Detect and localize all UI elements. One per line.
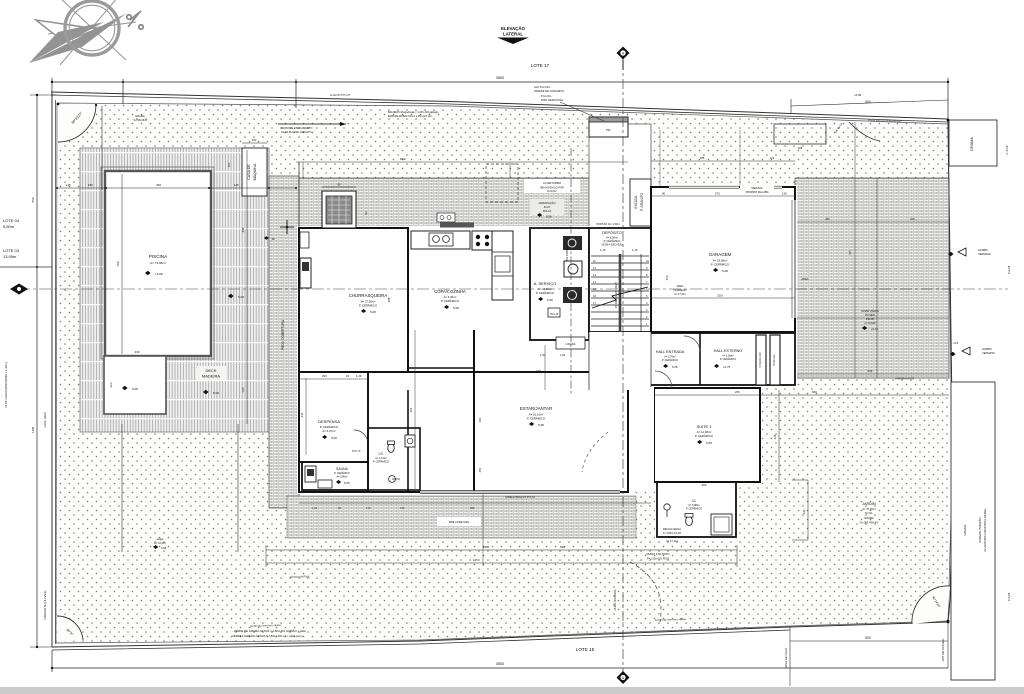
svg-text:5,08: 5,08 xyxy=(331,436,337,440)
svg-text:MUT DIR PASSEIO: MUT DIR PASSEIO xyxy=(941,639,945,662)
svg-text:P. CERÂMICO: P. CERÂMICO xyxy=(527,416,546,421)
washbasin xyxy=(405,435,415,447)
svg-text:400: 400 xyxy=(701,483,706,487)
drain box in band xyxy=(437,213,455,222)
room SAUNA xyxy=(302,462,368,490)
svg-text:AREA: AREA xyxy=(801,277,808,281)
svg-text:40 AT: 40 AT xyxy=(544,205,551,209)
svg-text:P. CERÂMICO: P. CERÂMICO xyxy=(536,290,555,295)
svg-text:GARAGEM: GARAGEM xyxy=(709,252,732,257)
corner white wedge bottom-right xyxy=(912,586,950,624)
svg-text:GLP P=2,20m: GLP P=2,20m xyxy=(534,85,550,89)
svg-text:LATERAL: LATERAL xyxy=(503,32,523,37)
svg-text:PERMEAB.: PERMEAB. xyxy=(674,289,687,292)
svg-text:5,08: 5,08 xyxy=(161,546,167,550)
gate on top boundary xyxy=(589,117,628,137)
svg-text:750: 750 xyxy=(606,128,611,132)
escoamento arrow note xyxy=(278,123,346,125)
svg-text:P. CERÂMICO: P. CERÂMICO xyxy=(359,303,378,308)
svg-text:LOTE 17: LOTE 17 xyxy=(531,63,550,68)
svg-text:5,08: 5,08 xyxy=(238,295,244,299)
svg-text:1,00: 1,00 xyxy=(560,353,566,357)
svg-text:A= 6,37m²: A= 6,37m² xyxy=(323,429,336,433)
svg-text:3500: 3500 xyxy=(496,76,504,80)
svg-text:P=0,70: P=0,70 xyxy=(352,449,361,453)
svg-text:GRAMA: GRAMA xyxy=(135,114,145,118)
garage forecourt dims xyxy=(651,160,795,162)
svg-text:100: 100 xyxy=(252,138,257,142)
right brick dims xyxy=(854,122,856,378)
suite shower xyxy=(711,514,732,535)
dimension: bottom 3500 xyxy=(52,667,948,669)
svg-text:A= 75,26m²: A= 75,26m² xyxy=(862,507,876,511)
room HALL ENTRADA / HALL EXTERNO xyxy=(642,333,795,385)
svg-text:415: 415 xyxy=(848,250,852,255)
stairs center rail xyxy=(619,254,622,332)
svg-text:288: 288 xyxy=(241,227,245,232)
dimension: casa maquina 100 xyxy=(242,142,267,144)
lot boundary top double line xyxy=(51,92,948,119)
svg-text:JARDIM: JARDIM xyxy=(862,502,875,506)
svg-text:DECK: DECK xyxy=(205,368,216,373)
svg-text:5,08: 5,08 xyxy=(370,310,376,314)
svg-text:5,60m: 5,60m xyxy=(3,224,15,229)
svg-text:MADEIRA: MADEIRA xyxy=(202,374,221,379)
svg-text:252: 252 xyxy=(409,407,413,412)
svg-text:+0,75: +0,75 xyxy=(723,365,731,369)
svg-text:203 COBERTURA: 203 COBERTURA xyxy=(565,238,569,261)
service yard brick band xyxy=(299,178,593,228)
garage inner dims xyxy=(651,195,795,197)
svg-text:415: 415 xyxy=(665,275,669,280)
casa de maquina box xyxy=(242,148,267,196)
svg-text:JARDIM ALA KTE: JARDIM ALA KTE xyxy=(895,378,915,381)
svg-text:A= 73,08m²: A= 73,08m² xyxy=(150,261,166,265)
svg-text:90: 90 xyxy=(337,183,341,187)
svg-text:400: 400 xyxy=(156,183,161,187)
svg-text:P. CERÂMICO: P. CERÂMICO xyxy=(720,358,736,361)
svg-text:MRE CORETURA: MRE CORETURA xyxy=(449,521,470,524)
svg-text:GRAMA: GRAMA xyxy=(864,516,874,520)
svg-text:P.CIM GRL: P.CIM GRL xyxy=(773,353,776,366)
stairs treads xyxy=(591,256,649,326)
svg-text:A= 34,4m²: A= 34,4m² xyxy=(154,542,166,545)
svg-text:A. SERVIÇO: A. SERVIÇO xyxy=(534,281,557,286)
svg-text:ELEVAÇÃO: ELEVAÇÃO xyxy=(501,26,526,31)
svg-text:POLLA: POLLA xyxy=(543,209,552,213)
room COPA/COZINHA xyxy=(407,228,409,368)
garage white xyxy=(651,185,797,334)
svg-text:4,50: 4,50 xyxy=(536,369,542,373)
paved terrace band below house xyxy=(287,496,636,538)
hall door arc xyxy=(684,336,700,352)
svg-text:BARKDE MVBA2 Kmc/v 1,05m DO wG: BARKDE MVBA2 Kmc/v 1,05m DO wG xyxy=(388,115,432,118)
svg-text:AUAD EVNTKu M: AUAD EVNTKu M xyxy=(330,94,350,97)
suite bath white xyxy=(655,480,738,539)
north compass rose xyxy=(48,0,136,65)
stove xyxy=(472,231,494,250)
tanque xyxy=(548,308,560,317)
planters between halls xyxy=(756,335,766,385)
interior dim marks left block xyxy=(305,378,307,455)
entry path white xyxy=(589,124,651,228)
svg-text:Fm3,8m²: Fm3,8m² xyxy=(547,190,557,193)
svg-text:P. CERÂMICO: P. CERÂMICO xyxy=(686,508,702,511)
svg-text:P+5,08: P+5,08 xyxy=(1007,265,1011,274)
terrain stipple fill xyxy=(56,103,952,643)
svg-text:PISCINA: PISCINA xyxy=(149,254,168,259)
svg-text:15: 15 xyxy=(346,374,350,378)
shower circle xyxy=(389,476,396,483)
svg-text:690: 690 xyxy=(560,545,565,549)
svg-text:C3 RETURBO: C3 RETURBO xyxy=(543,181,562,185)
svg-text:1,20: 1,20 xyxy=(312,506,318,510)
dimension: 600 wall top right xyxy=(791,100,948,106)
section line A-A vertical xyxy=(622,60,624,672)
svg-text:223: 223 xyxy=(109,382,113,387)
svg-text:PROPRIO Rw1,45M: PROPRIO Rw1,45M xyxy=(746,191,769,194)
svg-text:76x1,10: 76x1,10 xyxy=(550,313,559,316)
corridor wall xyxy=(367,372,369,462)
svg-text:ESTAR/JANTAR: ESTAR/JANTAR xyxy=(520,406,552,411)
svg-text:600: 600 xyxy=(478,417,482,422)
svg-text:1,68m HtGP: 1,68m HtGP xyxy=(43,412,47,428)
sauna/is annex white xyxy=(297,455,422,492)
serviço/deposito block white xyxy=(530,226,655,342)
svg-text:A= 6,56m²: A= 6,56m² xyxy=(606,236,618,240)
svg-text:MUIRO 0,60 PINTO: MUIRO 0,60 PINTO xyxy=(646,552,669,556)
proj cobertura strip xyxy=(269,176,299,508)
garage top wall windows xyxy=(669,185,739,189)
svg-text:21,05m EM CURVA (DM40 + 1,40m): 21,05m EM CURVA (DM40 + 1,40m) xyxy=(4,362,8,408)
svg-text:COPA/COZINHA: COPA/COZINHA xyxy=(434,289,466,294)
svg-text:GRAMA: GRAMA xyxy=(963,524,967,535)
svg-text:3500: 3500 xyxy=(496,662,504,666)
svg-text:250: 250 xyxy=(478,467,482,472)
room DEPOSITO + stairs block xyxy=(589,228,651,332)
right side arrow markers xyxy=(958,248,966,256)
survey cross on strip xyxy=(280,220,294,234)
svg-text:+5,8: +5,8 xyxy=(953,341,959,345)
svg-text:JANELA 600x2,10 P=1,10: JANELA 600x2,10 P=1,10 xyxy=(505,495,536,499)
grama rect top right xyxy=(949,120,997,166)
pomar rect right xyxy=(951,382,995,680)
svg-text:130: 130 xyxy=(400,506,405,510)
svg-text:230: 230 xyxy=(134,350,139,354)
svg-text:+5,08: +5,08 xyxy=(854,93,862,97)
dashed muro curve xyxy=(630,562,661,622)
pvp dashed module xyxy=(486,164,518,202)
svg-text:125: 125 xyxy=(234,183,239,187)
svg-text:P=2,20m: P=2,20m xyxy=(541,94,551,98)
dimension: top 3500 xyxy=(52,78,948,122)
projection vertical x571 xyxy=(570,148,572,395)
dimension: pool vertical 700 xyxy=(121,174,123,354)
svg-text:5x GN.: 5x GN. xyxy=(865,511,873,515)
svg-text:600: 600 xyxy=(865,100,871,104)
svg-text:ALVENARIA GRACIOSA KEREL: ALVENARIA GRACIOSA KEREL xyxy=(983,508,987,552)
svg-text:VERMASK: VERMASK xyxy=(982,351,995,355)
svg-text:MÁQUINA: MÁQUINA xyxy=(253,163,257,180)
piscina xyxy=(105,171,211,356)
room ESTAR/JANTAR xyxy=(473,330,475,492)
corridor white beside estar xyxy=(630,387,654,492)
svg-text:LOTE 03: LOTE 03 xyxy=(3,248,20,253)
svg-text:AREA: AREA xyxy=(677,285,684,288)
svg-text:243: 243 xyxy=(300,412,304,417)
svg-text:P=1,20m DO PISO: P=1,20m DO PISO xyxy=(647,557,669,561)
svg-text:KOMM VIÁDUK: KOMM VIÁDUK xyxy=(861,310,879,313)
toilet xyxy=(388,444,394,453)
upper projection dim line xyxy=(296,161,628,163)
svg-text:VERDES GERAIS NATIVA = 7,80m²: VERDES GERAIS NATIVA = 7,80m² DO m² + pá… xyxy=(232,634,303,638)
svg-text:P. GRANITO: P. GRANITO xyxy=(640,193,644,211)
svg-text:DANO mini SALO: DANO mini SALO xyxy=(784,648,788,669)
svg-text:PIN.08: PIN.08 xyxy=(866,318,874,321)
section marker bottom xyxy=(617,671,630,684)
lot boundary bottom double line xyxy=(52,622,948,647)
svg-text:MEDIAVA: MEDIAVA xyxy=(752,187,763,190)
svg-text:P. CERÂMICO: P. CERÂMICO xyxy=(373,461,389,464)
svg-text:388: 388 xyxy=(387,297,391,302)
svg-text:600: 600 xyxy=(865,636,871,640)
svg-text:SUITE 1: SUITE 1 xyxy=(696,424,712,429)
halls white xyxy=(630,331,797,387)
room SUITE 1 xyxy=(654,388,760,482)
svg-text:- VERDE DE GRAMA NATIVA = 2,80: - VERDE DE GRAMA NATIVA = 2,80m DO GABIÃ… xyxy=(232,628,306,633)
svg-text:600: 600 xyxy=(812,390,817,394)
dimension: pool top row xyxy=(57,187,296,189)
svg-text:VERMASK: VERMASK xyxy=(978,252,991,256)
svg-text:140: 140 xyxy=(802,509,806,514)
axis marker left xyxy=(10,284,28,295)
svg-text:ESCADA: ESCADA xyxy=(634,195,638,209)
svg-text:13,95m: 13,95m xyxy=(3,254,17,259)
svg-text:5,08: 5,08 xyxy=(672,365,678,369)
svg-text:I.S.: I.S. xyxy=(692,499,697,503)
svg-text:CASA DE: CASA DE xyxy=(247,164,251,180)
lot boundary right line xyxy=(948,120,953,621)
spa / piscina infantil xyxy=(104,356,166,414)
projection lines below deck xyxy=(121,424,123,552)
svg-text:130: 130 xyxy=(782,192,787,196)
churrasqueira grill chimney xyxy=(322,191,356,228)
svg-text:LOTE 04: LOTE 04 xyxy=(3,218,20,223)
svg-text:HOMBO: HOMBO xyxy=(982,347,992,351)
lixeira box xyxy=(556,337,585,349)
garage door opening on right wall xyxy=(793,200,798,318)
svg-text:DESPENSA: DESPENSA xyxy=(318,419,340,424)
main block floor white xyxy=(297,226,630,494)
svg-text:DISP. REMOVÍVEL: DISP. REMOVÍVEL xyxy=(541,98,564,102)
svg-text:700: 700 xyxy=(116,261,120,266)
svg-text:310: 310 xyxy=(910,217,915,221)
svg-text:BALNEOK MurgaAceak = 1,20m DO: BALNEOK MurgaAceak = 1,20m DO gabagm xyxy=(388,111,439,114)
kitchen tall cabinets xyxy=(492,231,513,300)
svg-text:385 MODULO PVP: 385 MODULO PVP xyxy=(540,186,564,190)
svg-text:180: 180 xyxy=(88,183,93,187)
svg-text:5,08: 5,08 xyxy=(547,298,553,302)
svg-text:P. CERÂMICO: P. CERÂMICO xyxy=(695,433,714,438)
svg-text:HALL EXTERNO: HALL EXTERNO xyxy=(714,349,743,353)
svg-text:NASCENTE (UH-VILE): NASCENTE (UH-VILE) xyxy=(43,590,47,619)
svg-text:(SOB A ESCADA): (SOB A ESCADA) xyxy=(602,243,623,247)
kitchen wall counter bar xyxy=(440,223,474,228)
svg-text:1,10: 1,10 xyxy=(600,248,606,252)
dimension: deck right vertical xyxy=(246,150,248,424)
suite washbasin xyxy=(664,504,670,510)
c3 returbo label in service band xyxy=(524,179,580,193)
svg-text:5,08: 5,08 xyxy=(722,269,728,273)
svg-text:,08: ,08 xyxy=(271,237,275,241)
svg-text:92: 92 xyxy=(364,211,368,215)
svg-text:1985: 1985 xyxy=(483,545,490,549)
svg-text:5,08: 5,08 xyxy=(706,441,712,445)
suite toilet xyxy=(686,516,693,525)
svg-text:DEPÓSITO: DEPÓSITO xyxy=(602,230,622,235)
svg-text:A= N,DAP: A= N,DAP xyxy=(864,322,876,325)
corner white wedge top-left xyxy=(58,104,96,142)
svg-text:P. CERÂMICO: P. CERÂMICO xyxy=(662,359,678,362)
svg-text:1,05: 1,05 xyxy=(241,387,245,393)
svg-text:A= 17,4m²: A= 17,4m² xyxy=(666,540,678,543)
svg-text:235: 235 xyxy=(735,390,740,394)
room GARAGEM xyxy=(651,187,795,332)
svg-text:8 Db: 8 Db xyxy=(400,157,406,161)
svg-text:P. CERÂMICO: P. CERÂMICO xyxy=(441,298,460,303)
svg-text:MURO DE ESCOAMENTO: MURO DE ESCOAMENTO xyxy=(281,126,312,130)
svg-text:1,10: 1,10 xyxy=(632,248,638,252)
svg-text:250: 250 xyxy=(322,374,327,378)
room DESPENSA xyxy=(299,372,368,462)
svg-text:MURO DIVISÓRIA: MURO DIVISÓRIA xyxy=(614,589,617,610)
svg-text:485: 485 xyxy=(700,156,705,160)
area below stairs white xyxy=(589,332,651,390)
svg-text:245: 245 xyxy=(798,146,803,150)
svg-text:S.TERRA CIM: S.TERRA CIM xyxy=(759,352,762,367)
axis line horizontal (eixo) xyxy=(18,288,1008,290)
room I.S. xyxy=(368,428,420,490)
svg-text:PAREDE PADRÃO: PAREDE PADRÃO xyxy=(977,517,982,543)
svg-text:125: 125 xyxy=(473,558,478,562)
svg-text:100: 100 xyxy=(227,162,231,167)
svg-text:GRAMA: GRAMA xyxy=(970,137,974,151)
pool surround offset line xyxy=(101,167,214,359)
right paved area brick xyxy=(795,178,949,378)
svg-text:90: 90 xyxy=(662,192,666,196)
svg-text:P+5,08: P+5,08 xyxy=(1007,592,1011,601)
despensa door arc xyxy=(354,430,368,444)
room CHURRASQUEIRA walls xyxy=(299,228,408,372)
deck madeira hatch xyxy=(80,148,269,432)
svg-text:+0,16: +0,16 xyxy=(871,327,879,331)
svg-text:A= 17,6m²: A= 17,6m² xyxy=(674,293,686,296)
svg-text:LIXEIRA: LIXEIRA xyxy=(566,342,576,346)
stairs break line xyxy=(592,287,648,308)
svg-text:560: 560 xyxy=(31,197,35,202)
dimension: jardim vertical 140 xyxy=(807,480,809,540)
lot boundary left double line xyxy=(51,93,53,647)
svg-text:wrapa: wrapa xyxy=(157,538,164,541)
svg-text:7m DIR. RNI 45°: 7m DIR. RNI 45° xyxy=(859,521,878,525)
svg-text:5,08: 5,08 xyxy=(546,215,552,219)
dimension: bottom right 600 xyxy=(790,640,948,642)
svg-text:P+5,08: P+5,08 xyxy=(1005,145,1009,154)
svg-text:5,08: 5,08 xyxy=(453,306,459,310)
svg-text:275: 275 xyxy=(715,192,720,196)
svg-text:1395: 1395 xyxy=(31,426,35,433)
churrasqueira bench xyxy=(300,258,311,288)
svg-text:5,08: 5,08 xyxy=(538,423,544,427)
svg-text:5,08: 5,08 xyxy=(344,481,350,485)
laundry machines xyxy=(563,236,582,250)
svg-text:115: 115 xyxy=(66,183,71,187)
sauna stove xyxy=(305,466,316,482)
bottom gray strip xyxy=(0,687,1024,694)
svg-text:CHURRASQUEIRA: CHURRASQUEIRA xyxy=(349,293,388,298)
svg-text:PROJ. COBERTURA: PROJ. COBERTURA xyxy=(281,319,285,350)
svg-text:I.S.: I.S. xyxy=(378,452,383,456)
svg-text:PN.DA: PN.DA xyxy=(668,536,676,539)
dimension: left vertical xyxy=(36,95,38,647)
dimension rows below house xyxy=(299,502,651,504)
svg-text:HALL ENTRADA: HALL ENTRADA xyxy=(656,350,685,354)
estar south window line xyxy=(420,491,620,493)
svg-text:A= 5,86m²: A= 5,86m² xyxy=(336,476,347,479)
svg-text:AGUA PLUVIAL ASFALTO: AGUA PLUVIAL ASFALTO xyxy=(281,130,312,134)
deck madeira label xyxy=(196,366,226,380)
svg-text:170: 170 xyxy=(366,506,371,510)
svg-text:LOTE 15: LOTE 15 xyxy=(576,647,595,652)
svg-text:1,30: 1,30 xyxy=(540,353,546,357)
svg-text:415: 415 xyxy=(773,434,777,439)
svg-text:P. CERÂMICO: P. CERÂMICO xyxy=(711,262,730,267)
kitchen counter with sink xyxy=(411,231,470,249)
svg-text:1x 3,86m A4,3%: 1x 3,86m A4,3% xyxy=(663,532,682,535)
svg-text:PVi MDN: PVi MDN xyxy=(865,314,875,317)
curb arc top right corner xyxy=(849,122,880,141)
room A. SERVIÇO xyxy=(530,228,589,340)
svg-text:RECUO GERAL: RECUO GERAL xyxy=(663,528,682,531)
room I.S. suite xyxy=(657,482,736,537)
svg-text:550: 550 xyxy=(717,294,722,298)
svg-text:"A= 28,46m²: "A= 28,46m² xyxy=(133,118,148,122)
svg-text:600: 600 xyxy=(868,369,873,373)
svg-text:5,08: 5,08 xyxy=(213,391,219,395)
escada label box xyxy=(630,179,651,226)
svg-text:5,08: 5,08 xyxy=(132,387,138,391)
dimension: jardim top row 235/600 xyxy=(654,394,949,396)
section marker top xyxy=(617,47,630,60)
dimension: suite right 415 xyxy=(778,390,780,482)
svg-text:SAUNA: SAUNA xyxy=(336,467,348,471)
svg-text:1,29: 1,29 xyxy=(356,374,362,378)
svg-text:690: 690 xyxy=(470,506,475,510)
svg-text:450: 450 xyxy=(825,217,830,221)
svg-text:PAREDE DE CONCRETO: PAREDE DE CONCRETO xyxy=(534,89,564,93)
suite door arc xyxy=(655,371,672,388)
svg-text:110: 110 xyxy=(770,156,775,160)
svg-text:+5,08: +5,08 xyxy=(155,272,163,276)
corner white wedge bottom-left xyxy=(57,616,83,642)
suite white xyxy=(652,386,762,484)
svg-text:HOMBO: HOMBO xyxy=(978,248,988,252)
